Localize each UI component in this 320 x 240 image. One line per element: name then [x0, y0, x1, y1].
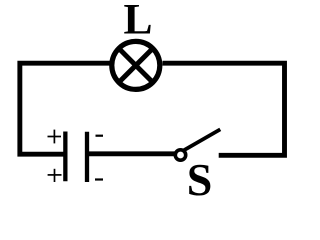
minus sign lower	[95, 178, 103, 180]
plus sign upper	[48, 130, 62, 144]
minus sign upper	[96, 135, 104, 137]
wire from capacitor right plate to switch	[88, 151, 176, 156]
svg-text:L: L	[123, 0, 152, 44]
plus sign lower	[48, 169, 62, 182]
capacitor right plate	[85, 132, 89, 182]
wire left loop: top-left, left side, bottom-left	[20, 63, 111, 154]
lamp L cross diagonal 2	[119, 48, 153, 82]
lamp L cross diagonal 1	[119, 48, 153, 82]
wire right loop: top-right, right side, bottom-right	[163, 63, 285, 155]
lamp L circle	[112, 41, 160, 89]
svg-text:S: S	[187, 154, 213, 204]
switch S lever	[184, 130, 218, 150]
capacitor left plate	[63, 132, 67, 182]
switch S pivot circle	[175, 150, 185, 160]
